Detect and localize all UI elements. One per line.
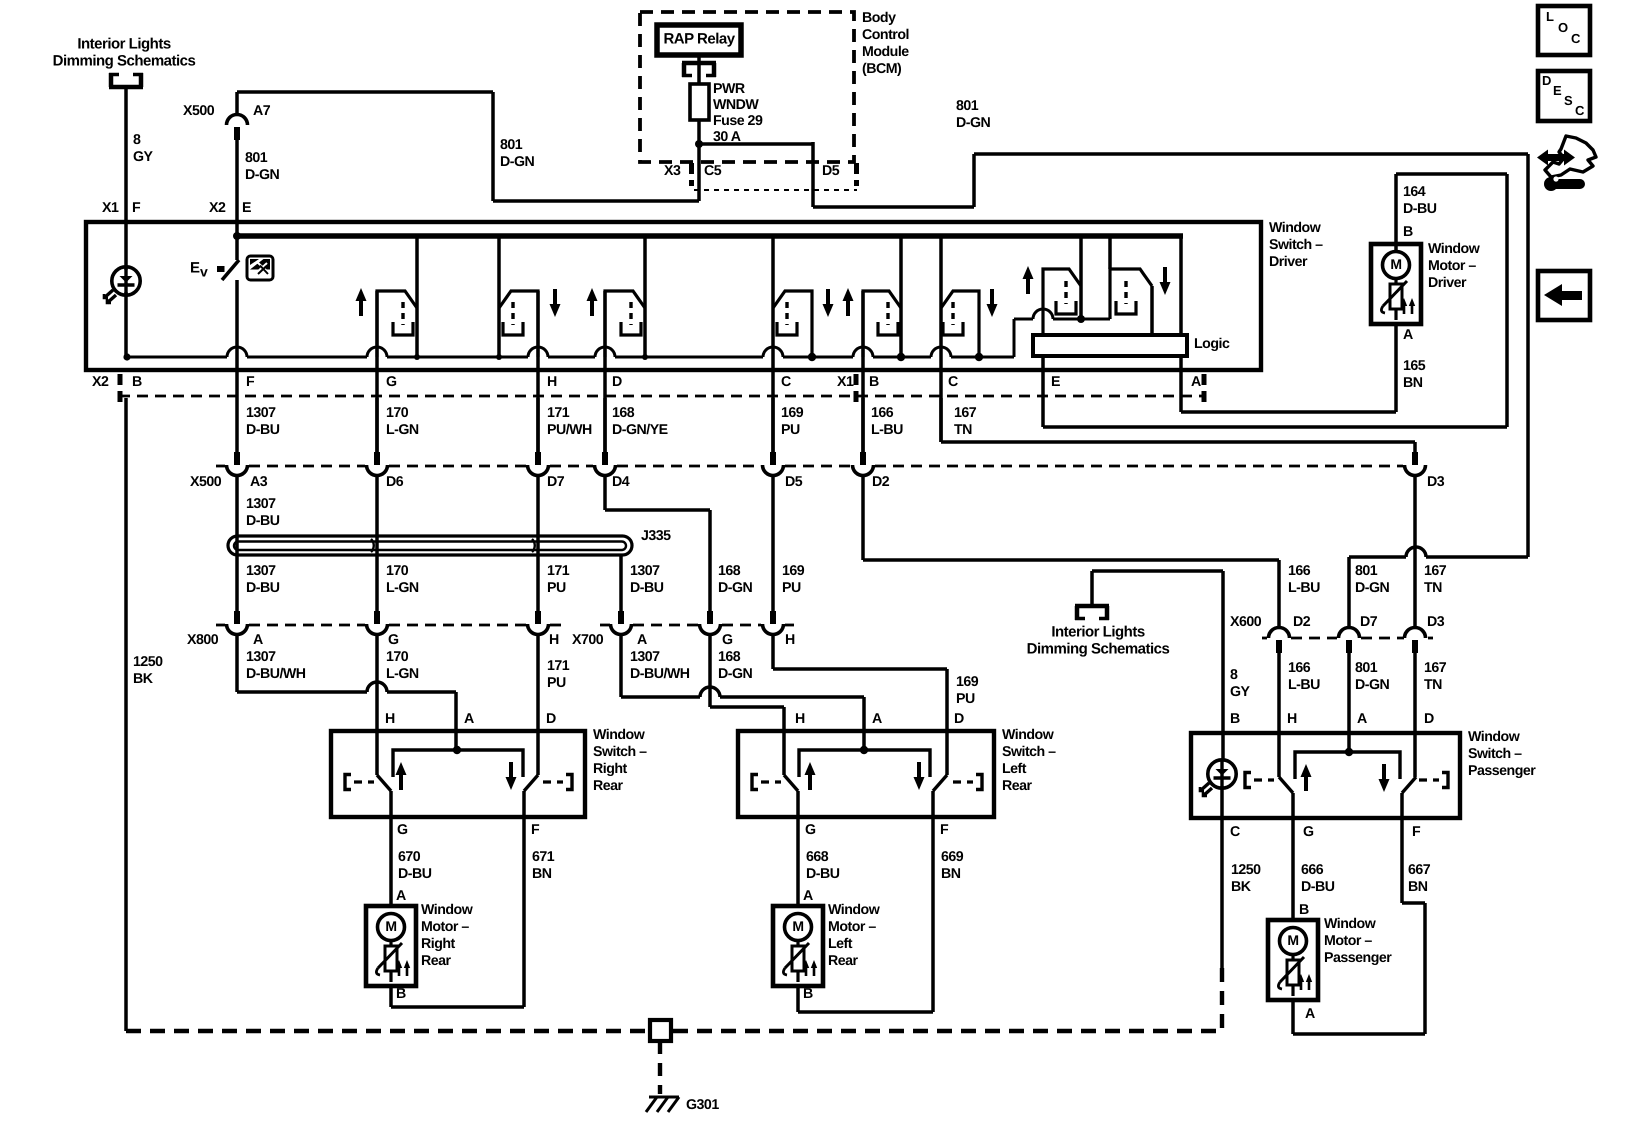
label motor left rear pin B [803, 986, 813, 1002]
svg-text:801: 801 [500, 137, 523, 153]
driver switch internal rail [123, 319, 1014, 361]
svg-text:E: E [1553, 83, 1562, 98]
svg-text:PU/WH: PU/WH [547, 422, 592, 438]
svg-text:D-GN: D-GN [956, 115, 991, 131]
svg-text:M: M [385, 918, 396, 934]
passenger down contact blade [1402, 777, 1416, 793]
label 1307 D-BU (below J335) [246, 563, 280, 596]
label 168 D-GN (X700 G) [718, 649, 753, 682]
connector X500 A3 [227, 452, 248, 476]
driver switch logic common wire [1014, 309, 1110, 323]
connector X500 D4 [595, 452, 616, 476]
wire 8 GY reference to passenger switch pin B [1092, 571, 1223, 761]
svg-text:A: A [253, 632, 263, 648]
window switch left rear box [738, 731, 994, 817]
svg-text:Switch –: Switch – [1002, 744, 1056, 760]
connector X600 D7 [1339, 628, 1360, 654]
wire 1307 D-BU/WH X700 A to left rear pin A [621, 636, 864, 752]
passenger common bar [1295, 748, 1400, 779]
svg-text:H: H [785, 632, 795, 648]
switch contact driver down (logic) [1110, 236, 1171, 336]
svg-text:C: C [1571, 31, 1581, 46]
connector X700 A [611, 611, 632, 635]
connector X700 H [763, 611, 784, 635]
svg-text:X3: X3 [664, 163, 681, 179]
svg-text:D-GN: D-GN [500, 154, 535, 170]
svg-text:Fuse 29: Fuse 29 [713, 113, 763, 129]
label 801 D-GN (segment 3) [956, 98, 991, 131]
svg-text:Driver: Driver [1428, 275, 1467, 291]
svg-text:Left: Left [828, 936, 853, 952]
wire left rear motor loop [798, 986, 933, 1012]
fuse PWR WNDW Fuse 29 30A [690, 81, 763, 145]
BCM label [862, 10, 909, 77]
svg-text:C: C [948, 374, 958, 390]
svg-text:F: F [246, 374, 255, 390]
RAP Relay box [657, 25, 741, 55]
svg-text:TN: TN [1424, 677, 1442, 693]
label motor passenger pin B [1299, 902, 1309, 918]
right rear down contact blade [524, 775, 538, 791]
svg-text:L-GN: L-GN [386, 666, 419, 682]
connector X700 G [700, 611, 721, 635]
svg-text:Motor –: Motor – [421, 919, 469, 935]
svg-text:BN: BN [1408, 879, 1428, 895]
svg-text:GY: GY [1230, 684, 1251, 700]
wire 169 PU X500 D5 to X700 H [771, 477, 775, 611]
window motor right rear label [421, 902, 474, 969]
svg-text:A: A [872, 711, 882, 727]
svg-text:B: B [1299, 902, 1309, 918]
switch contact RF up (pin D) [587, 236, 646, 357]
wire fuse output to BCM pin C5 [695, 120, 703, 201]
wire logic output pin E [1041, 356, 1045, 398]
wire logic battery feed [1179, 236, 1183, 335]
svg-text:L-GN: L-GN [386, 580, 419, 596]
switch contact driver up (logic) [1023, 236, 1082, 336]
svg-text:(BCM): (BCM) [862, 61, 902, 77]
label 801 D-GN above X600 D7 [1355, 563, 1390, 596]
svg-text:Left: Left [1002, 761, 1027, 777]
svg-text:D-BU: D-BU [246, 513, 280, 529]
label 666 D-BU [1301, 862, 1335, 895]
svg-text:Window: Window [1002, 727, 1055, 743]
pin labels left rear top [795, 711, 964, 727]
svg-text:L-BU: L-BU [1288, 677, 1320, 693]
svg-text:D-BU: D-BU [398, 866, 432, 882]
connector X600 D2 [1269, 628, 1290, 654]
svg-text:D-GN: D-GN [1355, 580, 1390, 596]
label 169 PU (pin C) [781, 405, 804, 438]
passenger left bracket [1245, 773, 1274, 788]
svg-text:GY: GY [133, 149, 154, 165]
label motor passenger pin A [1305, 1006, 1315, 1022]
svg-text:169: 169 [782, 563, 805, 579]
svg-text:TN: TN [954, 422, 972, 438]
label 166 L-BU (X600 D2) [1288, 660, 1320, 693]
label 171 PU (X800 H) [547, 658, 570, 691]
connector X800 H [528, 611, 549, 635]
connector X500 row dashed line [216, 465, 1403, 468]
svg-text:BN: BN [532, 866, 552, 882]
svg-text:D5: D5 [785, 474, 803, 490]
svg-text:PU: PU [547, 580, 566, 596]
svg-text:668: 668 [806, 849, 829, 865]
svg-text:G: G [1303, 824, 1314, 840]
svg-text:D: D [612, 374, 622, 390]
window motor passenger label [1324, 916, 1392, 966]
svg-text:171: 171 [547, 405, 570, 421]
label 669 BN [941, 849, 964, 882]
ground junction box [650, 1020, 671, 1041]
wire switch output to rear pin C [939, 308, 943, 442]
svg-text:PWR: PWR [713, 81, 745, 97]
svg-text:H: H [1287, 711, 1297, 727]
svg-text:A: A [1403, 327, 1413, 343]
passenger up arrow [1301, 764, 1312, 791]
label motor driver pin A [1403, 327, 1413, 343]
svg-text:A: A [1191, 374, 1201, 390]
svg-text:170: 170 [386, 563, 409, 579]
window switch left rear label [1002, 727, 1056, 794]
wire 801 D-GN BCM C5 to X500 A7 [237, 92, 699, 201]
svg-text:D7: D7 [547, 474, 565, 490]
label 167 TN above X600 [1424, 563, 1447, 596]
pin labels right rear bottom [397, 822, 540, 838]
svg-text:D-BU: D-BU [1301, 879, 1335, 895]
switch contact LF down (pin H) [499, 236, 561, 357]
labels X600 row [1230, 614, 1445, 630]
wire right rear motor loop [391, 986, 524, 1007]
svg-text:Window: Window [1269, 220, 1322, 236]
svg-text:H: H [547, 374, 557, 390]
svg-text:C: C [1230, 824, 1240, 840]
label motor driver pin B [1403, 224, 1413, 240]
svg-text:X600: X600 [1230, 614, 1262, 630]
svg-text:Motor –: Motor – [1428, 258, 1476, 274]
svg-text:D3: D3 [1427, 474, 1445, 490]
ground bus dashed [126, 1029, 1222, 1033]
svg-text:D: D [1542, 73, 1551, 88]
wire 671 BN right rear F to motor B [522, 791, 526, 1007]
splice J335 [228, 528, 671, 555]
svg-text:Window: Window [1468, 729, 1521, 745]
icon LOC [1538, 6, 1590, 55]
window motor left rear label [828, 902, 881, 969]
label 801 D-GN (segment 2) [245, 150, 280, 183]
svg-text:D-GN/YE: D-GN/YE [612, 422, 668, 438]
switch contact LF up (pin G) [356, 236, 418, 357]
svg-text:PU: PU [782, 580, 801, 596]
svg-text:B: B [1403, 224, 1413, 240]
svg-text:D-GN: D-GN [245, 167, 280, 183]
connector labels X2 E (driver switch top) [209, 200, 251, 216]
svg-text:Passenger: Passenger [1468, 763, 1536, 779]
connector X500 D6 [367, 452, 388, 476]
svg-text:E: E [242, 200, 251, 216]
icon DESC [1538, 71, 1590, 121]
svg-text:670: 670 [398, 849, 421, 865]
svg-text:Interior Lights: Interior Lights [1051, 623, 1144, 640]
wire 170 L-GN X800 G to right rear pin H [375, 636, 379, 775]
label 170 L-GN (pin G) [386, 405, 419, 438]
svg-text:PU: PU [781, 422, 800, 438]
connector X800 row dashed line [216, 624, 562, 627]
svg-text:168: 168 [718, 649, 741, 665]
label motor right rear pin B [396, 986, 406, 1002]
wire switch output to pin G [375, 291, 379, 452]
driver switch illumination LED [104, 267, 140, 303]
svg-text:168: 168 [612, 405, 635, 421]
svg-text:A: A [637, 632, 647, 648]
label 169 PU (X700 H) [956, 674, 979, 707]
svg-text:Window: Window [1428, 241, 1481, 257]
window switch driver label [1269, 220, 1323, 270]
svg-text:PU: PU [956, 691, 975, 707]
wire 1250 BK driver switch pin B to ground bus [124, 398, 128, 1031]
off-page reference Interior Lights Dimming (driver side) [53, 35, 196, 87]
svg-text:801: 801 [245, 150, 268, 166]
svg-text:8: 8 [1230, 667, 1238, 683]
svg-text:A: A [1305, 1006, 1315, 1022]
label 801 D-GN (segment 1) [500, 137, 535, 170]
connector X700 row dashed line [600, 624, 794, 627]
left rear right bracket [953, 775, 982, 790]
svg-text:8: 8 [133, 132, 141, 148]
svg-text:Driver: Driver [1269, 254, 1308, 270]
window motor passenger [1268, 920, 1318, 1000]
wire logic output pin A [1179, 356, 1183, 398]
label 165 BN [1403, 358, 1426, 391]
svg-text:A7: A7 [253, 103, 271, 119]
svg-text:Window: Window [421, 902, 474, 918]
connector X500 D7 [528, 452, 549, 476]
svg-text:RAP Relay: RAP Relay [663, 30, 735, 47]
svg-text:166: 166 [871, 405, 894, 421]
svg-text:G: G [386, 374, 397, 390]
svg-text:M: M [792, 918, 803, 934]
svg-text:D-GN: D-GN [1355, 677, 1390, 693]
svg-text:E: E [1051, 374, 1060, 390]
svg-text:X2: X2 [92, 374, 109, 390]
svg-text:X800: X800 [187, 632, 219, 648]
svg-text:BN: BN [941, 866, 961, 882]
label 1307 D-BU (below A3) [246, 496, 280, 529]
label 168 D-GN/YE (pin D) [612, 405, 668, 438]
passenger right bracket [1419, 773, 1448, 788]
svg-text:A3: A3 [250, 474, 268, 490]
svg-text:F: F [1412, 824, 1421, 840]
label 167 TN (X600 D3) [1424, 660, 1447, 693]
connector labels X1 row (driver switch bottom) [837, 374, 1204, 402]
wire master switch to pin F [235, 280, 239, 452]
svg-text:Rear: Rear [1002, 778, 1033, 794]
svg-text:G: G [722, 632, 733, 648]
svg-text:G: G [397, 822, 408, 838]
label X500 A7 [183, 103, 271, 119]
label motor left rear pin A [803, 888, 813, 904]
wire 801 D-GN pin E to driver motor B [1043, 174, 1507, 427]
svg-text:L-GN: L-GN [386, 422, 419, 438]
right rear up contact blade [377, 775, 391, 791]
svg-text:A: A [1357, 711, 1367, 727]
svg-text:Interior Lights: Interior Lights [77, 35, 170, 52]
labels X700 row [572, 632, 795, 648]
wire switch output to pin B [861, 291, 865, 452]
svg-text:Window: Window [828, 902, 881, 918]
Body Control Module (BCM) dashed box [640, 12, 854, 162]
wire switch output to pin C [771, 308, 775, 452]
svg-text:X1: X1 [837, 374, 854, 390]
svg-text:S: S [1564, 93, 1573, 108]
ground drop to G301 [658, 1041, 662, 1094]
svg-text:C: C [1575, 103, 1585, 118]
left rear down arrow [914, 762, 925, 790]
labels X800 row [187, 632, 559, 648]
svg-text:H: H [795, 711, 805, 727]
connector X500 D2 [853, 452, 874, 476]
svg-text:164: 164 [1403, 184, 1426, 200]
label 1307 D-BU/WH (X800 A) [246, 649, 306, 682]
wire fuse output branch to BCM pin D5 [699, 142, 813, 207]
svg-text:168: 168 [718, 563, 741, 579]
window motor right rear [366, 906, 416, 986]
svg-text:Body: Body [862, 10, 896, 26]
right rear left bracket [345, 775, 374, 790]
wire 167 TN rear pin C over to X500 D3 [941, 398, 1415, 452]
svg-text:169: 169 [956, 674, 979, 690]
wire switch output to pin H [536, 291, 540, 452]
svg-text:D-BU/WH: D-BU/WH [630, 666, 690, 682]
svg-text:Right: Right [421, 936, 456, 952]
svg-text:Logic: Logic [1194, 336, 1230, 352]
wire 170 L-GN through J335 [375, 477, 379, 611]
window motor driver [1371, 244, 1421, 324]
svg-text:TN: TN [1424, 580, 1442, 596]
svg-text:A: A [464, 711, 474, 727]
svg-text:L-BU: L-BU [871, 422, 903, 438]
svg-text:A: A [803, 888, 813, 904]
connector X800 G [367, 611, 388, 635]
wire pin G to X500 D6 [375, 398, 379, 452]
driver master switch blade [190, 259, 239, 280]
svg-text:166: 166 [1288, 563, 1311, 579]
connector X600 D3 [1405, 628, 1426, 654]
wire 1307 D-BU/WH tap J335 to X700 A [619, 555, 623, 611]
svg-text:D: D [546, 711, 556, 727]
svg-text:1307: 1307 [246, 496, 276, 512]
wire 801 D-GN BCM D5 right and up [813, 154, 1528, 557]
svg-text:Window: Window [593, 727, 646, 743]
svg-text:Rear: Rear [828, 953, 859, 969]
svg-text:1307: 1307 [630, 563, 660, 579]
window switch passenger box [1191, 733, 1460, 818]
svg-text:170: 170 [386, 649, 409, 665]
svg-text:167: 167 [1424, 563, 1447, 579]
left rear up arrow [805, 762, 816, 790]
label 670 D-BU [398, 849, 432, 882]
label 164 D-BU [1403, 184, 1437, 217]
label 1307 D-BU (pin F) [246, 405, 280, 438]
window switch right rear box [331, 731, 585, 817]
wire switch output to pin D [603, 291, 607, 452]
svg-text:171: 171 [547, 658, 570, 674]
off-page reference Interior Lights Dimming (passenger side) [1027, 606, 1170, 657]
svg-text:1307: 1307 [246, 405, 276, 421]
wire passenger motor loop [1293, 1000, 1425, 1034]
label 170 L-GN (X800 G) [386, 649, 419, 682]
svg-text:Passenger: Passenger [1324, 950, 1392, 966]
label 8 GY (passenger) [1230, 667, 1251, 700]
window switch passenger label [1468, 729, 1536, 779]
wire LED to rail and pin B [124, 292, 128, 357]
label 1250 BK (passenger) [1231, 862, 1261, 895]
svg-text:F: F [940, 822, 949, 838]
wire 171 PU through J335 [536, 477, 540, 611]
svg-text:166: 166 [1288, 660, 1311, 676]
svg-text:B: B [869, 374, 879, 390]
wire 166 L-BU X600 D2 to passenger pin H [1277, 653, 1281, 777]
svg-text:C: C [781, 374, 791, 390]
svg-text:801: 801 [1355, 660, 1378, 676]
svg-text:Dimming Schematics: Dimming Schematics [53, 52, 196, 69]
svg-text:169: 169 [781, 405, 804, 421]
label motor right rear pin A [396, 888, 406, 904]
svg-text:O: O [1558, 20, 1568, 35]
svg-text:1307: 1307 [246, 649, 276, 665]
passenger up contact blade [1279, 777, 1293, 793]
svg-text:H: H [385, 711, 395, 727]
wire 666 D-BU passenger G to motor B [1291, 793, 1295, 921]
svg-text:1307: 1307 [630, 649, 660, 665]
driver switch connector dashed line X2/X1 [119, 395, 1205, 398]
wire 165 BN driver motor A to logic pin A [1181, 324, 1396, 412]
svg-text:D2: D2 [872, 474, 890, 490]
svg-text:165: 165 [1403, 358, 1426, 374]
driver master switch window icon [247, 256, 273, 280]
wire 166 L-BU X500 D2 over to X600 D2 [863, 477, 1279, 628]
right rear right bracket [543, 775, 572, 790]
switch contact LR down (pin C rear) [941, 236, 998, 357]
svg-text:Module: Module [862, 44, 909, 60]
svg-text:B: B [396, 986, 406, 1002]
label 166 L-BU above X600 [1288, 563, 1320, 596]
svg-text:D5: D5 [822, 163, 840, 179]
svg-text:669: 669 [941, 849, 964, 865]
svg-text:D-BU/WH: D-BU/WH [246, 666, 306, 682]
svg-text:E: E [190, 259, 200, 276]
svg-text:666: 666 [1301, 862, 1324, 878]
svg-text:G301: G301 [686, 1097, 719, 1113]
label 667 BN [1408, 862, 1431, 895]
window motor driver label [1428, 241, 1481, 291]
relay output fork bracket [682, 55, 716, 84]
svg-text:D4: D4 [612, 474, 630, 490]
right rear up arrow [396, 762, 407, 790]
wire 171 PU X800 H to right rear pin D [536, 636, 540, 775]
label 166 L-BU (pin B) [871, 405, 903, 438]
svg-text:D2: D2 [1293, 614, 1311, 630]
svg-text:Motor –: Motor – [828, 919, 876, 935]
wire 801 D-GN down to X600 D7 with hop over 167 TN [1349, 547, 1528, 628]
svg-text:171: 171 [547, 563, 570, 579]
svg-text:J335: J335 [641, 528, 671, 544]
label 801 D-GN (X600 D7) [1355, 660, 1390, 693]
connector X500 A7 [227, 115, 248, 141]
passenger down arrow [1379, 764, 1390, 792]
window switch driver box [86, 222, 1261, 370]
svg-text:G: G [388, 632, 399, 648]
